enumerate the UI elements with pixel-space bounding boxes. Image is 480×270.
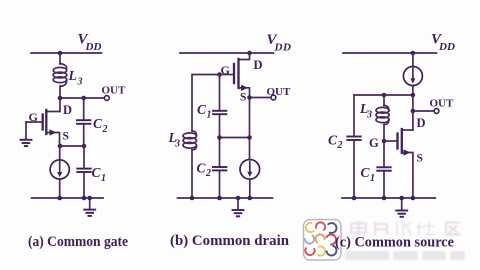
node drain (a) — [58, 96, 63, 101]
inductor L3 (b) — [183, 131, 197, 150]
svg-text:S: S — [240, 92, 246, 104]
node rail L3 (b) — [190, 196, 195, 201]
inductor L3 (a) — [53, 64, 67, 87]
node rail ground (c) — [399, 196, 404, 201]
svg-text:S: S — [417, 153, 423, 165]
current source I1 (a) — [50, 160, 69, 179]
wire current source to rail (b) — [249, 179, 251, 198]
svg-text:C: C — [361, 165, 371, 180]
transistor M3 drain lead (c) — [402, 129, 413, 131]
logo hook row2 — [303, 233, 337, 246]
wire L3 to drain node (a) — [59, 86, 61, 98]
ground rail (a) — [32, 197, 103, 199]
node rail C1 (c) — [382, 196, 387, 201]
watermark char 4 — [417, 222, 434, 235]
transistor M2 source lead (b) — [239, 88, 250, 98]
node OUT (c) — [411, 109, 416, 114]
wire middle junction (b) — [220, 137, 250, 139]
wire OUT (c) — [413, 110, 434, 112]
svg-text:OUT: OUT — [430, 98, 455, 110]
terminal OUT (b) — [271, 95, 276, 100]
watermark char 5 — [446, 223, 460, 235]
wire source node to current source (a) — [59, 146, 61, 160]
label VDD (a) — [78, 31, 102, 53]
label L3 (c) — [359, 101, 372, 121]
ground rail (c) — [342, 197, 435, 199]
wire L3 top (c) — [383, 95, 385, 106]
ground symbol (b) — [233, 198, 244, 216]
node rail ground (b) — [236, 196, 241, 201]
terminal OUT (c) — [434, 109, 439, 114]
svg-text:D: D — [63, 103, 72, 117]
transistor M1 source arrow (a) — [50, 129, 57, 135]
svg-text:2: 2 — [102, 124, 108, 135]
wire VDD to current source (c) — [412, 53, 414, 67]
label VDD (c) — [431, 32, 455, 54]
transistor M1 channel bar (a) — [45, 110, 47, 134]
wire VDD to L3 (a) — [59, 53, 61, 64]
node middle left (b) — [217, 135, 222, 140]
node source left (a) — [58, 144, 63, 149]
ground symbol (a) — [84, 198, 95, 216]
svg-text:DD: DD — [438, 41, 455, 53]
watermark char 1 — [351, 222, 366, 236]
wire C2 branch top (c) — [353, 95, 355, 137]
capacitor C1 (b) — [213, 75, 226, 138]
node rail left (a) — [57, 196, 62, 201]
terminal OUT (a) — [104, 96, 109, 101]
wire gate to C1 (c) — [383, 141, 385, 167]
label C2 (b) — [197, 161, 212, 180]
svg-text:C: C — [197, 102, 207, 117]
svg-text:2: 2 — [205, 168, 211, 179]
wire source node (a) — [60, 145, 85, 147]
svg-text:(b) Common drain: (b) Common drain — [170, 233, 289, 249]
capacitor C1 (a) — [77, 146, 90, 198]
transistor M2 channel bar (b) — [237, 59, 239, 88]
node source right (a) — [82, 144, 87, 149]
transistor M3 gate bar (c) — [396, 134, 398, 149]
inductor L3 (c) — [376, 105, 389, 124]
capacitor C2 (b) — [213, 138, 226, 199]
node VDD junction (a) — [58, 51, 63, 56]
wire L3 to rail (b) — [191, 150, 193, 198]
capacitor C2 (c) — [347, 137, 360, 199]
transistor M2 source arrow (b) — [241, 85, 248, 91]
label C2 (c) — [328, 133, 343, 152]
svg-text:(c) Common source: (c) Common source — [335, 235, 455, 251]
node rail ground (a) — [87, 196, 92, 201]
svg-text:OUT: OUT — [102, 85, 127, 97]
transistor M2 drain lead (b) — [239, 53, 250, 60]
wire top junction horizontal (c) — [354, 94, 413, 96]
node L3 top (c) — [382, 93, 387, 98]
svg-text:G: G — [29, 110, 38, 124]
watermark chinese text row — [351, 222, 460, 236]
node rail mid (a) — [82, 196, 87, 201]
label C2 (a) — [93, 116, 108, 135]
svg-text:C: C — [197, 161, 207, 176]
wire source to OUT (b) — [250, 97, 271, 99]
wire drain node to OUT (a) — [60, 97, 104, 99]
transistor M2 gate bar (b) — [233, 64, 235, 83]
svg-text:C: C — [93, 116, 103, 131]
svg-text:C: C — [328, 133, 338, 148]
node source (b) — [247, 95, 252, 100]
transistor M3 gate lead (c) — [384, 140, 397, 142]
node middle right (b) — [247, 135, 252, 140]
current source I3 (c) — [403, 67, 422, 86]
svg-text:2: 2 — [337, 140, 343, 151]
VDD rail (a) — [31, 52, 102, 54]
label C1 (a) — [92, 165, 107, 184]
capacitor C1 (c) — [377, 167, 390, 198]
svg-text:D: D — [254, 58, 263, 72]
wire current source to rail (a) — [59, 179, 61, 198]
wire gate to left branch (b) — [192, 75, 220, 132]
wire current source to node (c) — [412, 86, 414, 131]
transistor M3 source arrow (c) — [404, 149, 411, 155]
svg-text:DD: DD — [85, 41, 102, 53]
node rail current source (b) — [248, 196, 253, 201]
wire L3 to gate node (c) — [383, 125, 385, 142]
label C1 (b) — [197, 102, 212, 121]
label VDD (b) — [267, 32, 292, 54]
current source I2 (b) — [240, 160, 260, 180]
transistor M1 source lead (a) — [46, 133, 59, 147]
node gate (b) — [217, 72, 222, 77]
node rail C2 (b) — [217, 196, 222, 201]
transistor M1 gate lead (a) — [26, 121, 42, 123]
label L3 (a) — [68, 68, 83, 88]
transistor M3 channel bar (c) — [401, 129, 403, 153]
svg-text:OUT: OUT — [267, 86, 292, 98]
svg-text:1: 1 — [370, 173, 375, 184]
svg-text:1: 1 — [207, 110, 212, 121]
label L3 (b) — [168, 130, 181, 149]
VDD rail (b) — [180, 52, 273, 54]
transistor M1 drain lead (a) — [46, 98, 60, 112]
transistor M3 source lead (c) — [402, 153, 413, 199]
transistor M2 gate lead (b) — [220, 74, 234, 76]
label C1 (c) — [361, 165, 376, 184]
svg-text:(a) Common gate: (a) Common gate — [28, 234, 129, 250]
node rail C2 (c) — [352, 196, 357, 201]
svg-text:S: S — [63, 131, 69, 143]
svg-text:C: C — [92, 165, 102, 180]
svg-text:3: 3 — [366, 110, 372, 121]
watermark char 2 — [375, 223, 387, 235]
watermark char 3 — [397, 222, 411, 235]
logo hook row1 — [304, 221, 339, 235]
node VDD junction (b) — [247, 51, 252, 56]
svg-text:1: 1 — [101, 173, 106, 184]
wire gate to ground (a) — [25, 122, 27, 139]
svg-text:D: D — [417, 116, 426, 130]
svg-text:3: 3 — [77, 77, 83, 88]
ground gate (a) — [21, 140, 32, 146]
svg-text:G: G — [221, 63, 230, 77]
ground rail (b) — [178, 197, 273, 199]
node cs bottom (c) — [411, 93, 416, 98]
svg-text:DD: DD — [274, 42, 292, 54]
node VDD junction (c) — [411, 51, 416, 56]
node gate (c) — [382, 139, 387, 144]
capacitor C2 (a) — [77, 98, 90, 146]
watermark logo box — [303, 220, 341, 261]
svg-text:G: G — [369, 136, 379, 150]
node C2 top (a) — [81, 96, 86, 101]
watermark url row — [345, 251, 465, 260]
svg-text:L: L — [68, 68, 77, 83]
logo hook row3 — [304, 244, 338, 257]
svg-text:3: 3 — [174, 138, 180, 149]
VDD rail (c) — [343, 52, 436, 54]
ground symbol (c) — [396, 198, 407, 217]
transistor M1 gate bar (a) — [42, 115, 44, 130]
node rail source (c) — [411, 196, 416, 201]
wire source node to current source (b) — [249, 98, 251, 160]
